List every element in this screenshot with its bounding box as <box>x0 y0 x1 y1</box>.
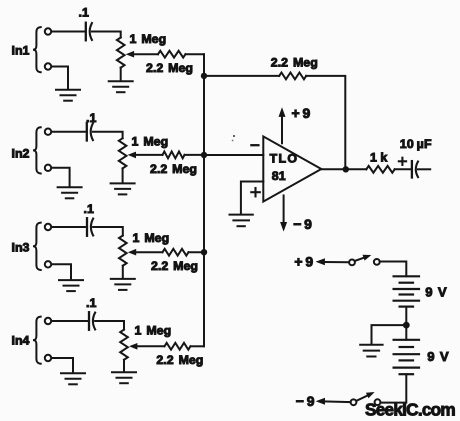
battery B1 9 V <box>394 275 419 277</box>
terminal J3b (In3 return) <box>45 261 51 267</box>
svg-text:9 V: 9 V <box>425 284 447 299</box>
svg-text:2.2 Meg: 2.2 Meg <box>156 353 203 367</box>
junction node A (feedback tap) <box>201 73 207 79</box>
wire wiper R4a to summing resistor R4b <box>136 345 165 347</box>
wire battery B2 to switch S2 <box>380 374 406 402</box>
ground below pot R1a <box>109 80 133 82</box>
potentiometer R3a 1 Meg (level control In3) <box>119 236 127 266</box>
ground at non-inverting input <box>230 214 253 216</box>
svg-text:.1: .1 <box>86 111 96 125</box>
svg-text:.1: .1 <box>86 296 96 310</box>
resistor R5 2.2 Meg feedback <box>279 73 306 80</box>
capacitor C3 .1 uF input coupling <box>86 218 88 236</box>
svg-text:1 Meg: 1 Meg <box>133 231 170 245</box>
wire R6 to output cap C5 <box>395 168 412 170</box>
terminal J1a (In1 hot) <box>45 28 51 34</box>
wire wiper R2a to summing resistor R2b <box>134 154 162 156</box>
svg-text:1 Meg: 1 Meg <box>132 134 169 148</box>
svg-text:− 9: − 9 <box>296 393 315 409</box>
wire In4 return terminal to ground <box>52 358 73 373</box>
wire feedback R5 to output node <box>306 76 345 169</box>
ground below pot R3a <box>111 278 135 280</box>
V+ supply arrow +9 on U1 <box>281 116 283 144</box>
arrow to -9 rail <box>316 398 325 405</box>
wire In1 return terminal to ground <box>52 67 68 89</box>
wire switch S2 to -9 arrow <box>324 400 351 403</box>
op-amp U1 TLO81 triangle <box>263 136 321 201</box>
wire non-inverting input to ground <box>241 182 263 214</box>
wire R1b to summing bus (corner down to node A) <box>186 54 205 76</box>
svg-text:In4: In4 <box>12 333 30 347</box>
wire R4b to summing bus bottom corner <box>191 345 205 347</box>
wire switch S1 to battery B1 <box>380 262 407 277</box>
svg-text:2.2 Meg: 2.2 Meg <box>150 162 197 176</box>
non-inverting input plus sign <box>251 191 259 193</box>
wire wiper R1a to summing resistor R1b <box>132 53 158 55</box>
svg-text:1 Meg: 1 Meg <box>135 323 172 337</box>
arrow to +9 rail <box>316 258 325 265</box>
wire cap C4 to pot R4a top <box>95 321 124 330</box>
capacitor C2 .1 uF input coupling <box>86 123 88 141</box>
junction node D (output) <box>343 166 349 172</box>
ground below In1 return <box>56 89 80 91</box>
resistor R4b 2.2 Meg summing <box>165 343 191 350</box>
svg-text:In3: In3 <box>12 240 30 254</box>
wire wiper R3a to summing resistor R3b <box>134 251 162 253</box>
svg-text:1 Meg: 1 Meg <box>130 32 167 46</box>
terminal J1b (In1 return) <box>45 63 51 69</box>
wire pot R4a bottom to ground <box>123 360 125 372</box>
svg-text:.1: .1 <box>79 5 89 19</box>
svg-text:In1: In1 <box>12 44 30 58</box>
svg-text:2.2 Meg: 2.2 Meg <box>146 61 193 75</box>
wire In4 hot terminal to coupling cap <box>52 320 89 322</box>
switch S1 throw <box>374 259 380 265</box>
svg-text:+ 9: + 9 <box>294 254 313 270</box>
ground at supply midpoint <box>360 344 382 346</box>
potentiometer R4a 1 Meg (level control In4) <box>120 330 128 360</box>
wire In2 return terminal to ground <box>52 168 70 187</box>
ground below In3 return <box>59 279 83 281</box>
junction node B (inverting input) <box>201 152 207 158</box>
wire pot R1a bottom to ground <box>120 68 122 81</box>
wire +9 arrow to switch S1 <box>324 261 349 263</box>
svg-text:1 k: 1 k <box>370 151 387 165</box>
battery B2 9 V <box>405 325 407 340</box>
svg-text:TLO: TLO <box>270 152 299 166</box>
ground below In2 return <box>58 186 82 188</box>
svg-text:+ 9: + 9 <box>292 105 311 121</box>
wire summing bus vertical <box>203 54 205 346</box>
wire pot R2a bottom to ground <box>122 168 124 182</box>
switch S1 pole <box>349 260 355 266</box>
resistor R6 1 k output <box>366 166 394 173</box>
stray scan speckle <box>233 135 235 137</box>
terminal J4a (In4 hot) <box>45 318 51 324</box>
capacitor C4 .1 uF input coupling <box>88 312 90 330</box>
wire cap C3 to pot R3a top <box>93 227 123 236</box>
resistor R2b 2.2 Meg summing <box>163 152 185 159</box>
terminal J3a (In3 hot) <box>45 224 51 230</box>
svg-text:.1: .1 <box>84 202 94 216</box>
wire output lead <box>418 168 430 170</box>
wire In1 hot terminal to coupling cap <box>52 31 86 33</box>
ground below pot R4a <box>112 371 136 373</box>
switch S2 lever <box>356 394 371 401</box>
switch S2 pole <box>351 399 357 405</box>
polarity plus sign for C5 <box>399 160 406 162</box>
svg-text:10 µF: 10 µF <box>400 137 432 151</box>
wiper arrow of pot R1a <box>126 51 134 58</box>
wire cap C1 to pot R1a top <box>92 32 121 38</box>
svg-text:In2: In2 <box>12 147 30 161</box>
svg-text:81: 81 <box>272 169 286 183</box>
svg-text:− 9: − 9 <box>293 216 312 232</box>
terminal J2b (In2 return) <box>45 165 51 171</box>
resistor R3b 2.2 Meg summing <box>163 249 189 256</box>
switch S1 lever <box>355 256 368 261</box>
potentiometer R2a 1 Meg (level control In2) <box>119 138 127 168</box>
V- supply arrow -9 on U1 <box>283 196 285 224</box>
wiper arrow of pot R2a <box>128 152 136 159</box>
potentiometer R1a 1 Meg (level control In1) <box>117 38 125 68</box>
brace for In4 <box>33 317 41 364</box>
wire pot R3a bottom to ground <box>122 266 124 278</box>
wiper arrow of pot R3a <box>128 249 136 256</box>
brace for In2 <box>33 127 41 173</box>
capacitor C1 .1 uF input coupling <box>85 23 87 41</box>
inverting input minus sign <box>251 144 258 146</box>
terminal J2a (In2 hot) <box>45 129 51 135</box>
brace for In1 <box>33 27 41 72</box>
wire feedback from node A to resistor R5 <box>204 75 279 77</box>
ground below pot R2a <box>111 182 135 184</box>
wire R3b to summing bus <box>189 251 205 253</box>
terminal J4b (In4 return) <box>45 355 51 361</box>
capacitor C5 10 uF output coupling <box>411 161 413 177</box>
wire In2 hot terminal to coupling cap <box>52 131 87 133</box>
svg-text:2.2 Meg: 2.2 Meg <box>151 259 198 273</box>
wire R2b to summing bus <box>185 154 205 156</box>
resistor R1b 2.2 Meg summing <box>158 51 185 58</box>
junction node C (In3 tap) <box>201 249 207 255</box>
wire battery B1 to node E <box>405 307 407 326</box>
wire In3 hot terminal to coupling cap <box>52 226 87 228</box>
wire node E to supply ground <box>372 325 407 344</box>
ground below In4 return <box>61 372 85 374</box>
wire op-amp output to node D <box>321 168 366 170</box>
wiper arrow of pot R4a <box>129 343 137 350</box>
switch S2 throw <box>375 399 381 405</box>
wire node B to inverting input <box>204 154 263 156</box>
svg-text:2.2 Meg: 2.2 Meg <box>271 55 318 69</box>
wire In3 return terminal to ground <box>52 264 71 279</box>
svg-text:9 V: 9 V <box>427 349 449 364</box>
brace for In3 <box>33 223 41 270</box>
wire cap C2 to pot R2a top <box>93 132 123 139</box>
junction node E (supply midpoint) <box>403 322 410 329</box>
